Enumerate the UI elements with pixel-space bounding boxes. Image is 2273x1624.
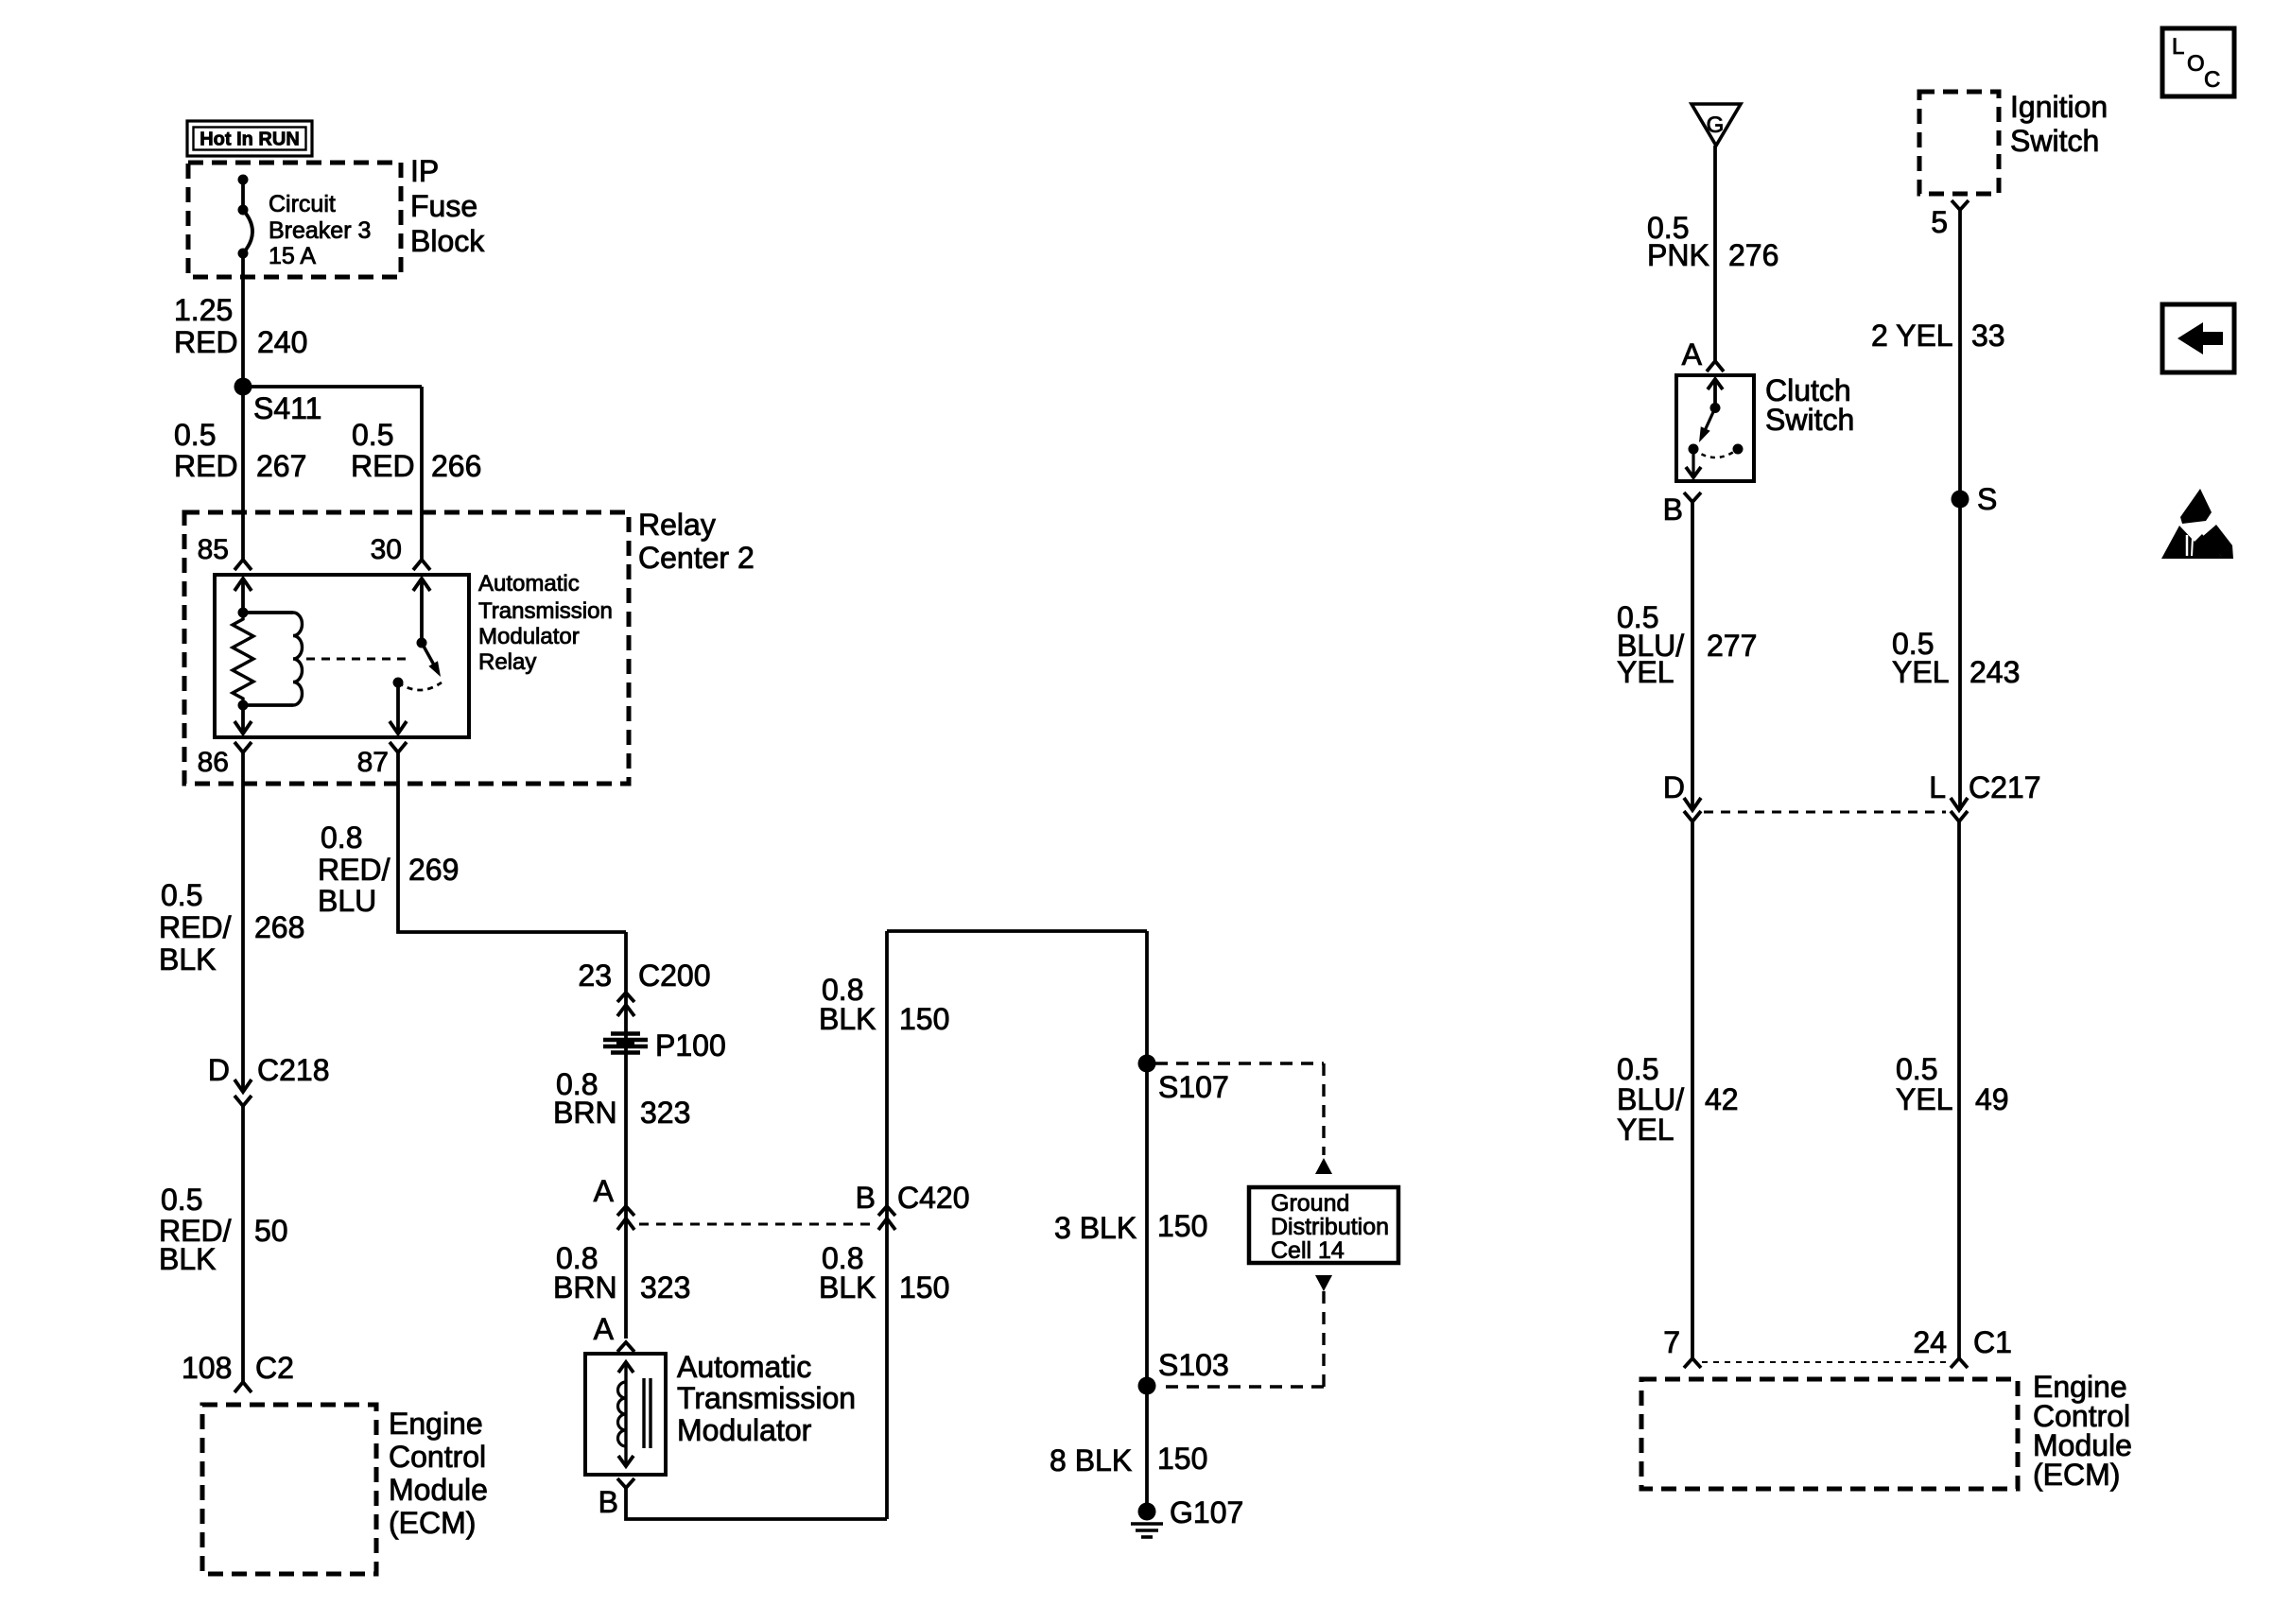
ECM pin 24 connector chevron bbox=[1951, 1358, 1968, 1368]
svg-text:RED: RED bbox=[174, 449, 238, 483]
label 150 upper bbox=[899, 1002, 949, 1036]
relay coil bottom node dot bbox=[238, 700, 249, 711]
label 0.8 RED/BLU bbox=[318, 821, 390, 918]
connector C218 pin D label bbox=[208, 1053, 230, 1087]
svg-text:3 BLK: 3 BLK bbox=[1054, 1211, 1136, 1245]
relay pin 85 internal arrow bbox=[234, 579, 252, 613]
ground G107 dot bbox=[1138, 1503, 1156, 1521]
clutch switch pin A connector chevron bbox=[1707, 361, 1724, 371]
splice S dot bbox=[1952, 491, 1969, 509]
svg-text:S411: S411 bbox=[253, 391, 321, 425]
svg-text:Relay: Relay bbox=[478, 649, 536, 675]
relay contact dashed arc bbox=[398, 682, 442, 690]
svg-text:BLU/: BLU/ bbox=[1617, 1082, 1684, 1116]
label Relay Center 2 bbox=[638, 508, 755, 575]
connector C217 pin L symbol bbox=[1951, 798, 1968, 821]
Engine Control Module dashed box (left) bbox=[202, 1405, 376, 1574]
svg-text:BRN: BRN bbox=[553, 1270, 617, 1304]
label 0.8 BLK upper bbox=[819, 973, 876, 1036]
label Clutch Switch bbox=[1765, 373, 1854, 437]
circuit breaker CB3 arc bbox=[243, 210, 252, 253]
svg-text:BRN: BRN bbox=[553, 1096, 617, 1130]
svg-text:G107: G107 bbox=[1170, 1495, 1243, 1529]
svg-text:150: 150 bbox=[899, 1270, 949, 1304]
label S bbox=[1977, 482, 1997, 516]
modulator internal double arrow bbox=[618, 1362, 633, 1466]
svg-text:RED: RED bbox=[174, 325, 238, 359]
svg-text:C: C bbox=[2204, 67, 2220, 93]
label Engine Control Module (ECM) right bbox=[2033, 1370, 2132, 1492]
Relay Center 2 dashed box bbox=[184, 512, 629, 784]
relay resistor zigzag bbox=[233, 613, 253, 705]
connector C420 pin B symbol bbox=[878, 1206, 895, 1230]
splice S103 dot bbox=[1138, 1377, 1156, 1395]
svg-text:RED/: RED/ bbox=[159, 910, 232, 944]
wire 323 upper segment bbox=[624, 932, 628, 1339]
svg-text:85: 85 bbox=[198, 534, 229, 565]
back-arrow navigation box bbox=[2162, 304, 2234, 372]
svg-text:Distribution: Distribution bbox=[1271, 1214, 1389, 1240]
label 50 bbox=[254, 1214, 288, 1248]
wire 267 to relay pin 85 bbox=[241, 387, 245, 560]
clutch switch contact dashed arc bbox=[1693, 449, 1738, 458]
svg-text:PNK: PNK bbox=[1647, 238, 1709, 272]
label 49 bbox=[1975, 1082, 2009, 1116]
svg-text:Block: Block bbox=[410, 224, 485, 258]
clutch switch arm with arrowhead bbox=[1699, 408, 1715, 443]
svg-text:D: D bbox=[208, 1053, 230, 1087]
label 267 bbox=[256, 449, 306, 483]
svg-text:0.5: 0.5 bbox=[1896, 1052, 1937, 1086]
label 0.8 BRN lower bbox=[553, 1241, 617, 1304]
svg-text:BLK: BLK bbox=[819, 1270, 876, 1304]
svg-text:267: 267 bbox=[256, 449, 306, 483]
svg-text:Relay: Relay bbox=[638, 508, 716, 542]
svg-text:1.25: 1.25 bbox=[174, 293, 233, 327]
connector C217 pin D symbol bbox=[1684, 798, 1701, 821]
label 0.5 RED (267) bbox=[174, 418, 238, 483]
svg-text:42: 42 bbox=[1705, 1082, 1739, 1116]
svg-text:2 YEL: 2 YEL bbox=[1871, 319, 1953, 353]
svg-text:A: A bbox=[1682, 337, 1703, 371]
pin 30 connector chevron bbox=[413, 560, 430, 570]
svg-text:8 BLK: 8 BLK bbox=[1050, 1443, 1132, 1477]
LOC reference box bbox=[2162, 28, 2234, 96]
label 323 lower bbox=[640, 1270, 690, 1304]
svg-text:Hot In RUN: Hot In RUN bbox=[200, 130, 300, 150]
relay coil top node dot bbox=[238, 608, 249, 618]
svg-text:Breaker 3: Breaker 3 bbox=[269, 217, 371, 244]
connector C420 pin B label bbox=[856, 1181, 876, 1215]
connector C217 pin L label bbox=[1929, 770, 1946, 804]
wire 240 1.25 RED bbox=[241, 253, 245, 387]
svg-text:Modulator: Modulator bbox=[677, 1413, 812, 1447]
label C420 bbox=[897, 1181, 970, 1215]
label 150 (8 BLK) bbox=[1157, 1442, 1207, 1476]
label 0.5 PNK bbox=[1647, 211, 1709, 272]
svg-text:C420: C420 bbox=[897, 1181, 970, 1215]
relay coil bottom connector bbox=[243, 703, 293, 707]
svg-text:323: 323 bbox=[640, 1096, 690, 1130]
svg-text:C200: C200 bbox=[638, 959, 711, 993]
power triangle G bbox=[1692, 104, 1741, 146]
relay internal dashed actuator link bbox=[306, 658, 412, 661]
connector C200 symbol bbox=[617, 993, 634, 1016]
label C200 bbox=[638, 959, 711, 993]
svg-text:BLK: BLK bbox=[159, 942, 216, 976]
label 0.5 BLU/YEL (277) bbox=[1617, 600, 1684, 689]
label S103 bbox=[1158, 1348, 1229, 1382]
svg-text:A: A bbox=[594, 1312, 615, 1346]
label IP Fuse Block bbox=[410, 154, 485, 258]
svg-text:S107: S107 bbox=[1158, 1070, 1229, 1104]
label 277 bbox=[1707, 629, 1757, 663]
label 268 bbox=[254, 910, 304, 944]
svg-text:(ECM): (ECM) bbox=[389, 1506, 476, 1540]
svg-text:Modulator: Modulator bbox=[478, 624, 580, 649]
label Engine Control Module (ECM) left bbox=[389, 1407, 488, 1540]
Ground Distribution link down arrowhead bbox=[1315, 1275, 1332, 1291]
svg-text:23: 23 bbox=[578, 959, 612, 993]
label C218 bbox=[257, 1053, 330, 1087]
svg-text:B: B bbox=[856, 1181, 876, 1215]
label S411 bbox=[253, 391, 321, 425]
svg-text:7: 7 bbox=[1663, 1325, 1680, 1359]
svg-text:0.8: 0.8 bbox=[321, 821, 362, 855]
wire 268 0.5 RED/BLK bbox=[241, 752, 245, 1092]
svg-text:243: 243 bbox=[1969, 655, 2020, 689]
wire 42 0.5 BLU/YEL bbox=[1691, 821, 1694, 1358]
svg-text:30: 30 bbox=[371, 534, 402, 565]
ECM pin 24 label bbox=[1913, 1325, 1947, 1359]
label C1 bbox=[1973, 1325, 2012, 1359]
Ground Distribution Cell 14 box bbox=[1249, 1187, 1398, 1263]
circuit breaker CB3 body dot bbox=[238, 205, 249, 216]
relay switch contact dot bbox=[393, 678, 404, 688]
svg-text:269: 269 bbox=[408, 853, 459, 887]
splice S107 dot bbox=[1138, 1055, 1156, 1073]
svg-text:BLK: BLK bbox=[159, 1242, 216, 1276]
pin 87 connector chevron bbox=[390, 742, 407, 752]
svg-text:150: 150 bbox=[899, 1002, 949, 1036]
modulator core bars bbox=[644, 1378, 651, 1448]
modulator coil winding bbox=[618, 1382, 627, 1446]
svg-text:5: 5 bbox=[1931, 205, 1948, 239]
svg-text:Module: Module bbox=[389, 1473, 488, 1507]
svg-text:277: 277 bbox=[1707, 629, 1757, 663]
label 269 bbox=[408, 853, 459, 887]
ignition pin 5 connector chevron bbox=[1952, 200, 1969, 210]
S107 dashed link to Ground Distribution bbox=[1155, 1063, 1324, 1155]
label 0.8 BRN upper bbox=[553, 1067, 617, 1130]
clutch switch internal arrow bbox=[1708, 379, 1723, 407]
label C217 bbox=[1969, 770, 2041, 804]
svg-text:150: 150 bbox=[1157, 1209, 1207, 1243]
svg-text:D: D bbox=[1663, 770, 1685, 804]
svg-text:0.5: 0.5 bbox=[161, 1183, 202, 1217]
pin 85 connector chevron bbox=[234, 560, 252, 570]
ECM pin 7 connector chevron bbox=[1684, 1358, 1701, 1368]
svg-text:86: 86 bbox=[198, 747, 229, 778]
connector C420 pin A symbol bbox=[617, 1206, 634, 1230]
splice S411 junction dot bbox=[234, 378, 252, 396]
C420 dashed connector link bbox=[639, 1223, 874, 1226]
label 243 bbox=[1969, 655, 2020, 689]
Engine Control Module dashed box (right) bbox=[1641, 1379, 2018, 1489]
ECM pin 108 label bbox=[182, 1351, 232, 1385]
svg-text:Cell 14: Cell 14 bbox=[1271, 1237, 1345, 1264]
wire 266 branch vertical to relay pin 30 bbox=[420, 387, 424, 560]
label 0.5 RED/BLK (50) bbox=[159, 1183, 232, 1276]
svg-text:87: 87 bbox=[357, 747, 389, 778]
svg-text:S103: S103 bbox=[1158, 1348, 1229, 1382]
svg-text:Automatic: Automatic bbox=[478, 571, 580, 596]
svg-text:49: 49 bbox=[1975, 1082, 2009, 1116]
label 8 BLK bbox=[1050, 1443, 1132, 1477]
ignition pin 5 label bbox=[1931, 205, 1948, 239]
svg-text:C2: C2 bbox=[255, 1351, 294, 1385]
svg-text:L: L bbox=[2172, 34, 2184, 60]
svg-text:RED/: RED/ bbox=[318, 853, 390, 887]
relay coil top connector bbox=[243, 611, 293, 614]
svg-text:Control: Control bbox=[389, 1440, 486, 1474]
svg-text:BLK: BLK bbox=[819, 1002, 876, 1036]
svg-text:0.5: 0.5 bbox=[174, 418, 216, 452]
label 1.25 RED bbox=[174, 293, 238, 359]
clutch switch pin A label bbox=[1682, 337, 1703, 371]
label 150 (3 BLK) bbox=[1157, 1209, 1207, 1243]
svg-text:Ignition: Ignition bbox=[2010, 90, 2108, 124]
svg-text:24: 24 bbox=[1913, 1325, 1947, 1359]
pin 85 label bbox=[198, 534, 229, 565]
svg-text:P100: P100 bbox=[655, 1028, 726, 1063]
svg-text:Automatic: Automatic bbox=[677, 1350, 811, 1384]
relay pin 86 internal arrow bbox=[234, 705, 252, 734]
svg-text:IP: IP bbox=[410, 154, 439, 188]
wire 50 0.5 RED/BLK bbox=[241, 1106, 245, 1382]
modulator pin B connector chevron bbox=[617, 1478, 634, 1488]
pin 86 label bbox=[198, 747, 229, 778]
svg-text:YEL: YEL bbox=[1892, 655, 1949, 689]
clutch switch pin B label bbox=[1663, 492, 1683, 527]
relay pin 87 internal arrow bbox=[390, 682, 407, 734]
relay switch arm with arrowhead bbox=[422, 643, 441, 677]
label 0.5 RED (266) bbox=[351, 418, 415, 483]
wire 150 0.8 BLK vertical bbox=[885, 931, 889, 1519]
label Ignition Switch bbox=[2010, 90, 2108, 158]
relay coil winding bbox=[293, 613, 303, 705]
label 0.5 YEL (243) bbox=[1892, 627, 1949, 689]
svg-text:B: B bbox=[1663, 492, 1683, 527]
label 33 bbox=[1971, 319, 2005, 353]
pin 87 label bbox=[357, 747, 389, 778]
svg-text:276: 276 bbox=[1728, 238, 1778, 272]
wire 33 2 YEL bbox=[1958, 210, 1962, 810]
connector C218 symbol bbox=[234, 1080, 252, 1106]
svg-text:108: 108 bbox=[182, 1351, 232, 1385]
circuit breaker CB3 bottom dot bbox=[238, 249, 249, 259]
label 266 bbox=[431, 449, 481, 483]
svg-text:L: L bbox=[1929, 770, 1946, 804]
svg-text:B: B bbox=[599, 1485, 618, 1519]
svg-text:Switch: Switch bbox=[1765, 403, 1854, 437]
svg-text:Center 2: Center 2 bbox=[638, 541, 755, 575]
svg-text:33: 33 bbox=[1971, 319, 2005, 353]
svg-text:A: A bbox=[594, 1174, 615, 1208]
Ignition Switch dashed box bbox=[1919, 92, 1999, 194]
wire inside fuse block bbox=[241, 180, 245, 210]
C217 dashed connector link bbox=[1704, 811, 1946, 814]
wire 150 3 BLK to ground bbox=[1145, 931, 1149, 1512]
power feed label "Hot In RUN" bbox=[187, 121, 312, 156]
label 323 upper bbox=[640, 1096, 690, 1130]
label 0.8 BLK lower bbox=[819, 1241, 876, 1304]
relay switch pivot dot bbox=[417, 638, 427, 648]
label S107 bbox=[1158, 1070, 1229, 1104]
svg-text:266: 266 bbox=[431, 449, 481, 483]
label 0.5 RED/BLK (268) bbox=[159, 878, 232, 976]
clutch switch pin B connector chevron bbox=[1684, 492, 1701, 502]
label 2 YEL bbox=[1871, 319, 1953, 353]
clutch switch pin B internal arrow bbox=[1686, 449, 1701, 477]
wire 150 from modulator B bbox=[626, 1488, 887, 1519]
label Automatic Transmission Modulator bbox=[677, 1350, 856, 1447]
relay pin 30 internal arrow bbox=[413, 579, 430, 643]
grommet P100 bbox=[603, 1034, 648, 1053]
wire 49 0.5 YEL bbox=[1957, 821, 1961, 1358]
svg-text:(ECM): (ECM) bbox=[2033, 1458, 2120, 1492]
ECM pins dashed link bbox=[1702, 1361, 1950, 1363]
svg-text:YEL: YEL bbox=[1617, 1113, 1674, 1147]
wire 269 0.8 RED/BLU bbox=[398, 752, 626, 932]
pin 30 label bbox=[371, 534, 402, 565]
label G107 bbox=[1170, 1495, 1243, 1529]
svg-text:0.5: 0.5 bbox=[1617, 1052, 1658, 1086]
IP Fuse Block dashed box bbox=[188, 163, 401, 277]
Automatic Transmission Modulator solenoid box bbox=[585, 1354, 666, 1475]
clutch switch pivot dot bbox=[1710, 403, 1721, 413]
wire 266 branch horizontal bbox=[243, 385, 422, 389]
wire 150 top horizontal bbox=[887, 929, 1147, 933]
svg-text:Ground: Ground bbox=[1271, 1190, 1349, 1217]
label 0.5 YEL (49) bbox=[1896, 1052, 1952, 1116]
S103 dashed link from Ground Distribution bbox=[1157, 1291, 1324, 1387]
svg-text:50: 50 bbox=[254, 1214, 288, 1248]
label 3 BLK bbox=[1054, 1211, 1136, 1245]
relay K1 Automatic Transmission Modulator Relay box bbox=[215, 575, 469, 737]
Ground Distribution link up arrowhead bbox=[1315, 1158, 1332, 1174]
pin 86 connector chevron bbox=[234, 742, 252, 752]
svg-text:RED: RED bbox=[351, 449, 415, 483]
label 0.5 BLU/YEL (42) bbox=[1617, 1052, 1684, 1147]
svg-text:YEL: YEL bbox=[1617, 655, 1674, 689]
label Ground Distribution Cell 14 bbox=[1271, 1190, 1389, 1264]
ground G107 symbol bbox=[1131, 1524, 1163, 1537]
label P100 bbox=[655, 1028, 726, 1063]
label 150 lower bbox=[899, 1270, 949, 1304]
svg-text:15 A: 15 A bbox=[269, 243, 316, 269]
wire 276 0.5 PNK bbox=[1713, 146, 1717, 361]
svg-text:Circuit: Circuit bbox=[269, 191, 336, 217]
ECM pin 7 label bbox=[1663, 1325, 1680, 1359]
svg-text:Transmission: Transmission bbox=[478, 598, 613, 624]
svg-text:C1: C1 bbox=[1973, 1325, 2012, 1359]
ESD sensitive device symbol bbox=[2161, 489, 2233, 559]
svg-text:BLU: BLU bbox=[318, 884, 376, 918]
svg-text:150: 150 bbox=[1157, 1442, 1207, 1476]
svg-text:Switch: Switch bbox=[2010, 124, 2099, 158]
label Automatic Transmission Modulator Relay bbox=[478, 571, 613, 675]
clutch switch right contact dot bbox=[1733, 444, 1744, 455]
svg-text:323: 323 bbox=[640, 1270, 690, 1304]
clutch switch box bbox=[1676, 375, 1754, 481]
svg-text:G: G bbox=[1707, 112, 1725, 138]
svg-text:C217: C217 bbox=[1969, 770, 2041, 804]
connector C200 pin 23 label bbox=[578, 959, 612, 993]
modulator pin A connector chevron bbox=[617, 1342, 634, 1352]
label C2 bbox=[255, 1351, 294, 1385]
modulator pin B label bbox=[599, 1485, 618, 1519]
modulator pin A label bbox=[594, 1312, 615, 1346]
label 240 bbox=[257, 325, 307, 359]
circuit breaker CB3 terminal dot top bbox=[238, 175, 249, 185]
label 42 bbox=[1705, 1082, 1739, 1116]
svg-text:0.5: 0.5 bbox=[352, 418, 393, 452]
svg-text:S: S bbox=[1977, 482, 1997, 516]
connector C217 pin D label bbox=[1663, 770, 1685, 804]
connector C420 pin A label bbox=[594, 1174, 615, 1208]
svg-text:C218: C218 bbox=[257, 1053, 330, 1087]
svg-text:268: 268 bbox=[254, 910, 304, 944]
svg-text:Fuse: Fuse bbox=[410, 189, 477, 223]
svg-text:Transmission: Transmission bbox=[677, 1381, 856, 1415]
svg-text:YEL: YEL bbox=[1896, 1082, 1952, 1116]
clutch switch left contact dot bbox=[1689, 444, 1699, 455]
svg-text:240: 240 bbox=[257, 325, 307, 359]
wire 277 0.5 BLU/YEL bbox=[1691, 502, 1694, 810]
svg-text:O: O bbox=[2187, 51, 2205, 77]
label 276 bbox=[1728, 238, 1778, 272]
svg-text:0.5: 0.5 bbox=[161, 878, 202, 912]
ECM pin C2 connector chevron bbox=[234, 1382, 252, 1392]
label Circuit Breaker 3 15 A bbox=[269, 191, 371, 269]
svg-text:Engine: Engine bbox=[389, 1407, 483, 1441]
